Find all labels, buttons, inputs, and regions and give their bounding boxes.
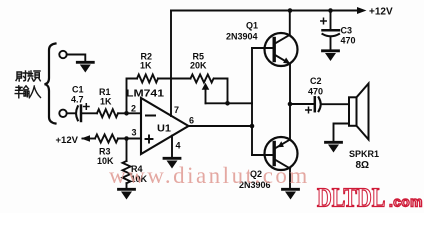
- U1 inverting input marker: [146, 115, 155, 117]
- junction rail / Q1 collector: [288, 8, 293, 13]
- wire emitters node down to Q2 emitter: [289, 104, 291, 140]
- node: input terminal bottom: [59, 110, 66, 117]
- Q1 emitter with arrow: [274, 55, 290, 64]
- Q1 base bar: [273, 39, 276, 61]
- junction R5 end / wiper line: [225, 101, 230, 106]
- label 输入 (input): [15, 86, 40, 98]
- wire speaker to ground: [334, 124, 350, 142]
- wire R3 to op-amp pin 3: [118, 138, 141, 140]
- wire C2 to speaker: [322, 103, 350, 105]
- ground (C3): [323, 51, 339, 61]
- wire op-amp output pin 6: [189, 125, 253, 127]
- junction rail / C3: [328, 8, 333, 13]
- resistor R2 1K: [137, 75, 158, 83]
- wire +12V top rail: [171, 10, 358, 12]
- wire input bottom to C1: [67, 112, 75, 114]
- potentiometer R5 20K: [191, 75, 214, 104]
- op-amp U1 LM741: [141, 98, 189, 154]
- junction pin2 / R2: [124, 111, 129, 116]
- wire output node to C2: [290, 103, 314, 105]
- Q1 collector: [274, 11, 290, 45]
- input brace: [45, 44, 56, 124]
- wire wiper to base bus: [206, 102, 253, 104]
- wire bus to Q2 base: [252, 154, 273, 156]
- wire bus to Q1 base: [252, 47, 273, 49]
- +12V supply arrowhead (top right): [357, 7, 367, 14]
- ground (input top): [77, 62, 93, 72]
- wire +12V rail down to op-amp pin 7: [170, 11, 172, 117]
- wire +12V to R3 (left arrow): [83, 138, 96, 140]
- wire R1 to op-amp pin 2: [119, 112, 142, 114]
- resistor R1 1K: [97, 109, 118, 117]
- transistor Q2 2N3906: [265, 137, 298, 170]
- wire rail to C3: [330, 11, 332, 30]
- junction emitters / C2: [288, 102, 293, 107]
- svg-text:DLTDL: DLTDL: [317, 184, 385, 213]
- Q2 collector: [274, 159, 290, 168]
- wire Q2 collector to ground: [289, 169, 291, 189]
- wire C1 to R1: [82, 112, 97, 114]
- capacitor C2 470: [306, 97, 321, 112]
- resistor R3 10K: [95, 135, 118, 143]
- svg-text:.com: .com: [389, 195, 423, 210]
- wire R5 right end down to wiper line: [214, 79, 228, 104]
- transistor Q1 2N3904: [265, 11, 298, 67]
- wire Q1 emitter down to output node: [289, 64, 291, 104]
- junction output / base bus: [250, 124, 255, 129]
- Q2 base bar: [273, 143, 276, 165]
- wire op-amp pin 4 down: [171, 136, 173, 157]
- wire C3 to ground: [330, 37, 332, 50]
- ground (Q2 collector): [283, 189, 299, 199]
- wire pin2 junction up to R2: [127, 79, 138, 114]
- node: input terminal top: [59, 51, 66, 58]
- capacitor C3 470: [321, 18, 339, 36]
- wire R2 to R5: [158, 78, 191, 80]
- capacitor C1 4.7: [76, 104, 89, 121]
- label 射频 (RF): [16, 71, 40, 81]
- ground (speaker): [326, 142, 342, 152]
- wire R4 to ground: [126, 183, 128, 188]
- U1 non-inverting input marker: [146, 136, 153, 143]
- ground (op-amp pin 4): [164, 158, 180, 168]
- wire base bus (Q1 base to Q2 base): [251, 48, 253, 155]
- ground (R4): [119, 189, 135, 199]
- wire input top to ground: [67, 55, 86, 62]
- speaker SPKR1 8ohm: [349, 84, 369, 140]
- resistor R4 10K (vertical): [123, 161, 131, 183]
- wire pin3 junction down to R4: [126, 139, 128, 162]
- junction pin3 / R4: [124, 136, 129, 141]
- watermark www.dianlut.com: [109, 163, 310, 189]
- R5 wiper arrow: [202, 83, 210, 90]
- Q2 emitter with arrow: [274, 140, 290, 149]
